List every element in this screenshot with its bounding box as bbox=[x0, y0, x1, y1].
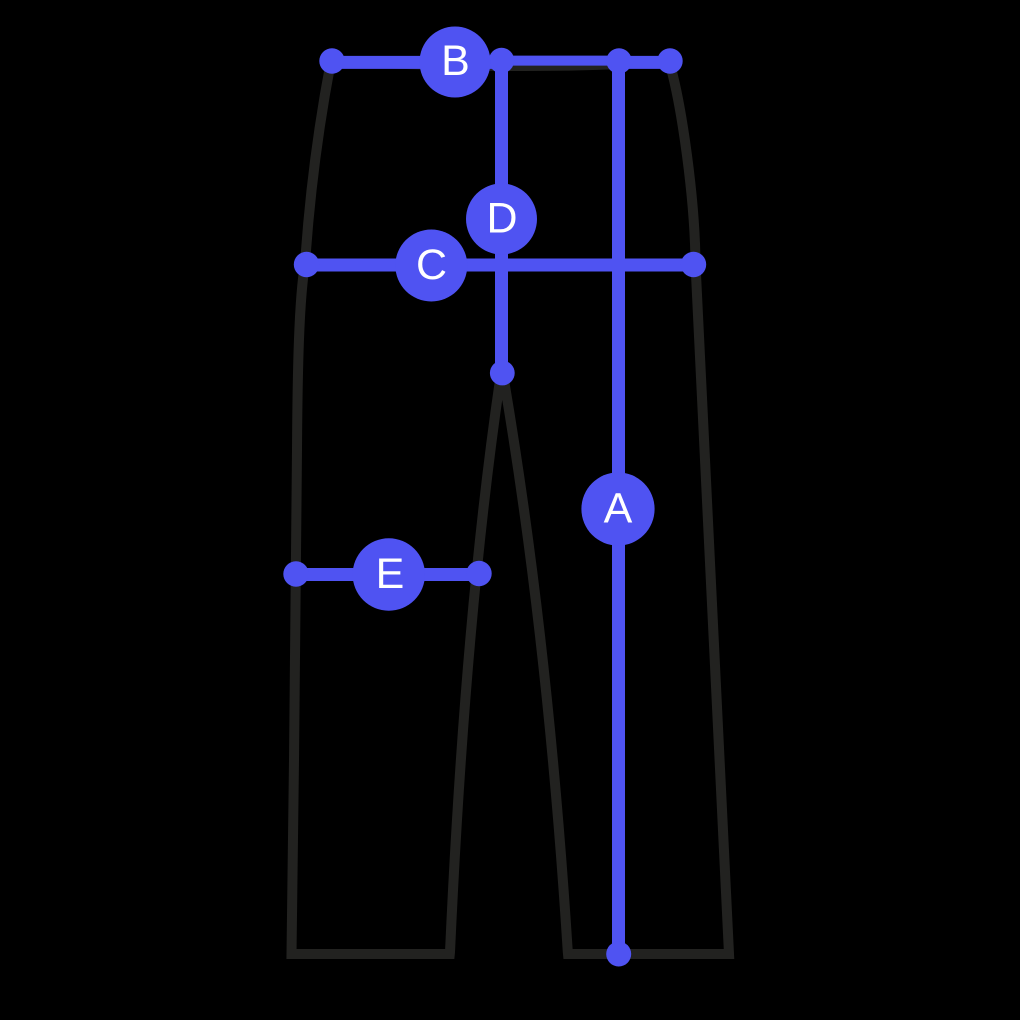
pants outline bbox=[292, 61, 730, 954]
endpoint dot A top bbox=[606, 48, 631, 73]
svg-text:E: E bbox=[376, 550, 405, 598]
endpoint dot E left bbox=[283, 561, 308, 586]
measurement line D (vertical rise) bbox=[495, 61, 508, 374]
label badge C bbox=[395, 230, 467, 302]
endpoint dot D top bbox=[489, 48, 514, 73]
measurement line A (outseam vertical) bbox=[612, 61, 625, 955]
measurement line E (thigh) bbox=[296, 568, 479, 581]
label badge B bbox=[420, 27, 491, 98]
svg-text:D: D bbox=[486, 195, 517, 243]
endpoint dot C right bbox=[681, 252, 706, 277]
endpoint dot D bottom (crotch) bbox=[490, 361, 515, 386]
svg-text:B: B bbox=[441, 37, 470, 85]
endpoint dot C left bbox=[294, 252, 319, 277]
measurement line C (hip) bbox=[306, 259, 694, 272]
measurement line B (waist) middle segment bbox=[502, 56, 620, 66]
endpoint dot B right bbox=[657, 48, 682, 73]
svg-text:A: A bbox=[604, 485, 633, 533]
measurement line B (waist) left segment bbox=[332, 56, 502, 69]
endpoint dot E right bbox=[466, 561, 491, 586]
measurement line B (waist) right segment bbox=[619, 56, 670, 69]
label badge E bbox=[353, 538, 425, 610]
label badge A bbox=[581, 472, 654, 545]
svg-text:C: C bbox=[416, 241, 447, 289]
endpoint dot B left bbox=[319, 48, 344, 73]
endpoint dot A bottom bbox=[606, 942, 631, 967]
label badge D bbox=[466, 184, 537, 255]
